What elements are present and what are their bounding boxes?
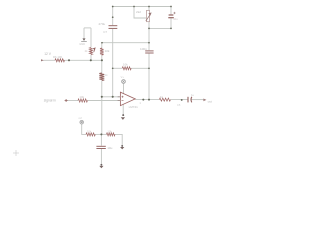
wire V- stub <box>122 105 124 116</box>
potentiometer R3 body <box>147 10 150 21</box>
node cross link left <box>101 42 103 44</box>
capacitor C6 <box>96 146 105 148</box>
wire signal in left <box>68 100 79 102</box>
op-amp U1 plus mark <box>122 96 124 98</box>
wire rail to C2 top <box>112 7 114 26</box>
resistor R10 <box>107 133 115 136</box>
node 12V after R1 <box>68 59 70 61</box>
wire rail to C3 top <box>170 7 172 15</box>
node cross link right <box>148 42 150 44</box>
ground C6 pin dot <box>100 164 102 166</box>
ground arrow bias <box>81 38 87 41</box>
wire bias cap top bar <box>84 27 91 29</box>
ground divider pin dot <box>121 145 123 147</box>
node divider mid <box>100 133 102 135</box>
node inverting junction <box>101 96 103 98</box>
wire R4 top lead <box>90 28 92 48</box>
wire Rb to gnd bend <box>115 134 122 145</box>
wire R6 bottom to inv node <box>101 81 103 97</box>
op-amp U1 minus mark <box>122 100 124 102</box>
ground C6 <box>99 166 103 168</box>
wire C2 bottom down to noninv node <box>112 29 114 97</box>
capacitor C3 <box>168 15 174 18</box>
node noninv bias <box>112 96 114 98</box>
wire 12V feed right <box>65 59 103 61</box>
wire node pot-bottom to C3 bottom <box>149 27 171 29</box>
node C3 bottom <box>170 28 172 30</box>
wire divider node to C6 <box>100 134 102 145</box>
capacitor C4 <box>145 51 153 53</box>
resistor R6 <box>99 73 104 81</box>
node 12V R5 <box>101 59 103 61</box>
wire C3 bottom to bend <box>170 18 172 28</box>
capacitor C3 plus sign <box>173 12 175 14</box>
node feedback right <box>148 67 150 69</box>
wire op-amp output <box>135 99 159 101</box>
wire R5 top lead <box>101 43 103 48</box>
resistor R4 arrow mark <box>94 48 96 52</box>
node pot bottom <box>148 28 150 30</box>
resistor R1 <box>55 59 65 62</box>
node rail pot <box>148 6 150 8</box>
wire signal in right <box>87 100 120 102</box>
wire 12V feed left <box>44 59 56 61</box>
resistor R2 <box>122 67 131 70</box>
node rail wiper tap <box>133 6 135 8</box>
resistor R5 <box>100 48 104 55</box>
wire feedback left segment <box>113 67 123 69</box>
capacitor C2 <box>109 26 118 29</box>
capacitor C5 <box>188 97 192 103</box>
ground divider <box>120 147 124 149</box>
node C2 column stub <box>112 16 114 18</box>
wire gnd stub left <box>83 28 85 38</box>
wire R4 bottom lead <box>90 55 92 61</box>
wire mid cross link <box>102 42 149 44</box>
wire inverting input <box>102 96 121 98</box>
wire rail to pot R3 top <box>148 7 150 11</box>
wire rail to pot wiper bend <box>134 7 146 19</box>
resistor R4 <box>90 48 93 55</box>
port signal in cross <box>65 99 68 102</box>
node output pin <box>142 99 144 101</box>
port 12V pin arrow <box>41 59 44 61</box>
wire C4 bottom down to output node <box>148 54 150 100</box>
power pin circle U1 V+ <box>122 80 126 84</box>
resistor R9 <box>86 133 95 136</box>
sheet origin cross <box>13 150 19 156</box>
node rail C3 <box>170 6 172 8</box>
wire output R to C5 <box>171 99 188 101</box>
potentiometer R3 wiper arrow <box>146 13 151 21</box>
port out arrow <box>203 99 206 102</box>
wire ref port stub <box>82 124 86 134</box>
op-amp U1 triangle <box>120 92 135 105</box>
wire inv node down to divider <box>101 97 103 135</box>
wire top supply rail <box>113 6 171 8</box>
node output cap <box>181 99 183 101</box>
node feedback left <box>112 67 114 69</box>
node 12V R4 <box>90 59 92 61</box>
node rail corner <box>112 6 114 8</box>
wire V+ stub <box>123 83 125 94</box>
op-amp U1 input pin stubs <box>118 97 121 101</box>
wire R5 to R6 <box>101 55 103 73</box>
ground U1 <box>121 117 125 120</box>
wire pot R3 bottom down to C4 top <box>148 22 150 51</box>
wire C5 to out port <box>192 99 205 101</box>
port ref circle <box>80 120 84 124</box>
ground U1 pin dot <box>122 114 124 116</box>
resistor R7 <box>78 99 87 102</box>
node output feedback <box>148 99 150 101</box>
wire feedback right segment <box>131 67 149 69</box>
wire between Ra Rb <box>95 133 106 135</box>
wire C6 to gnd <box>100 149 102 165</box>
resistor R8 <box>159 98 170 101</box>
